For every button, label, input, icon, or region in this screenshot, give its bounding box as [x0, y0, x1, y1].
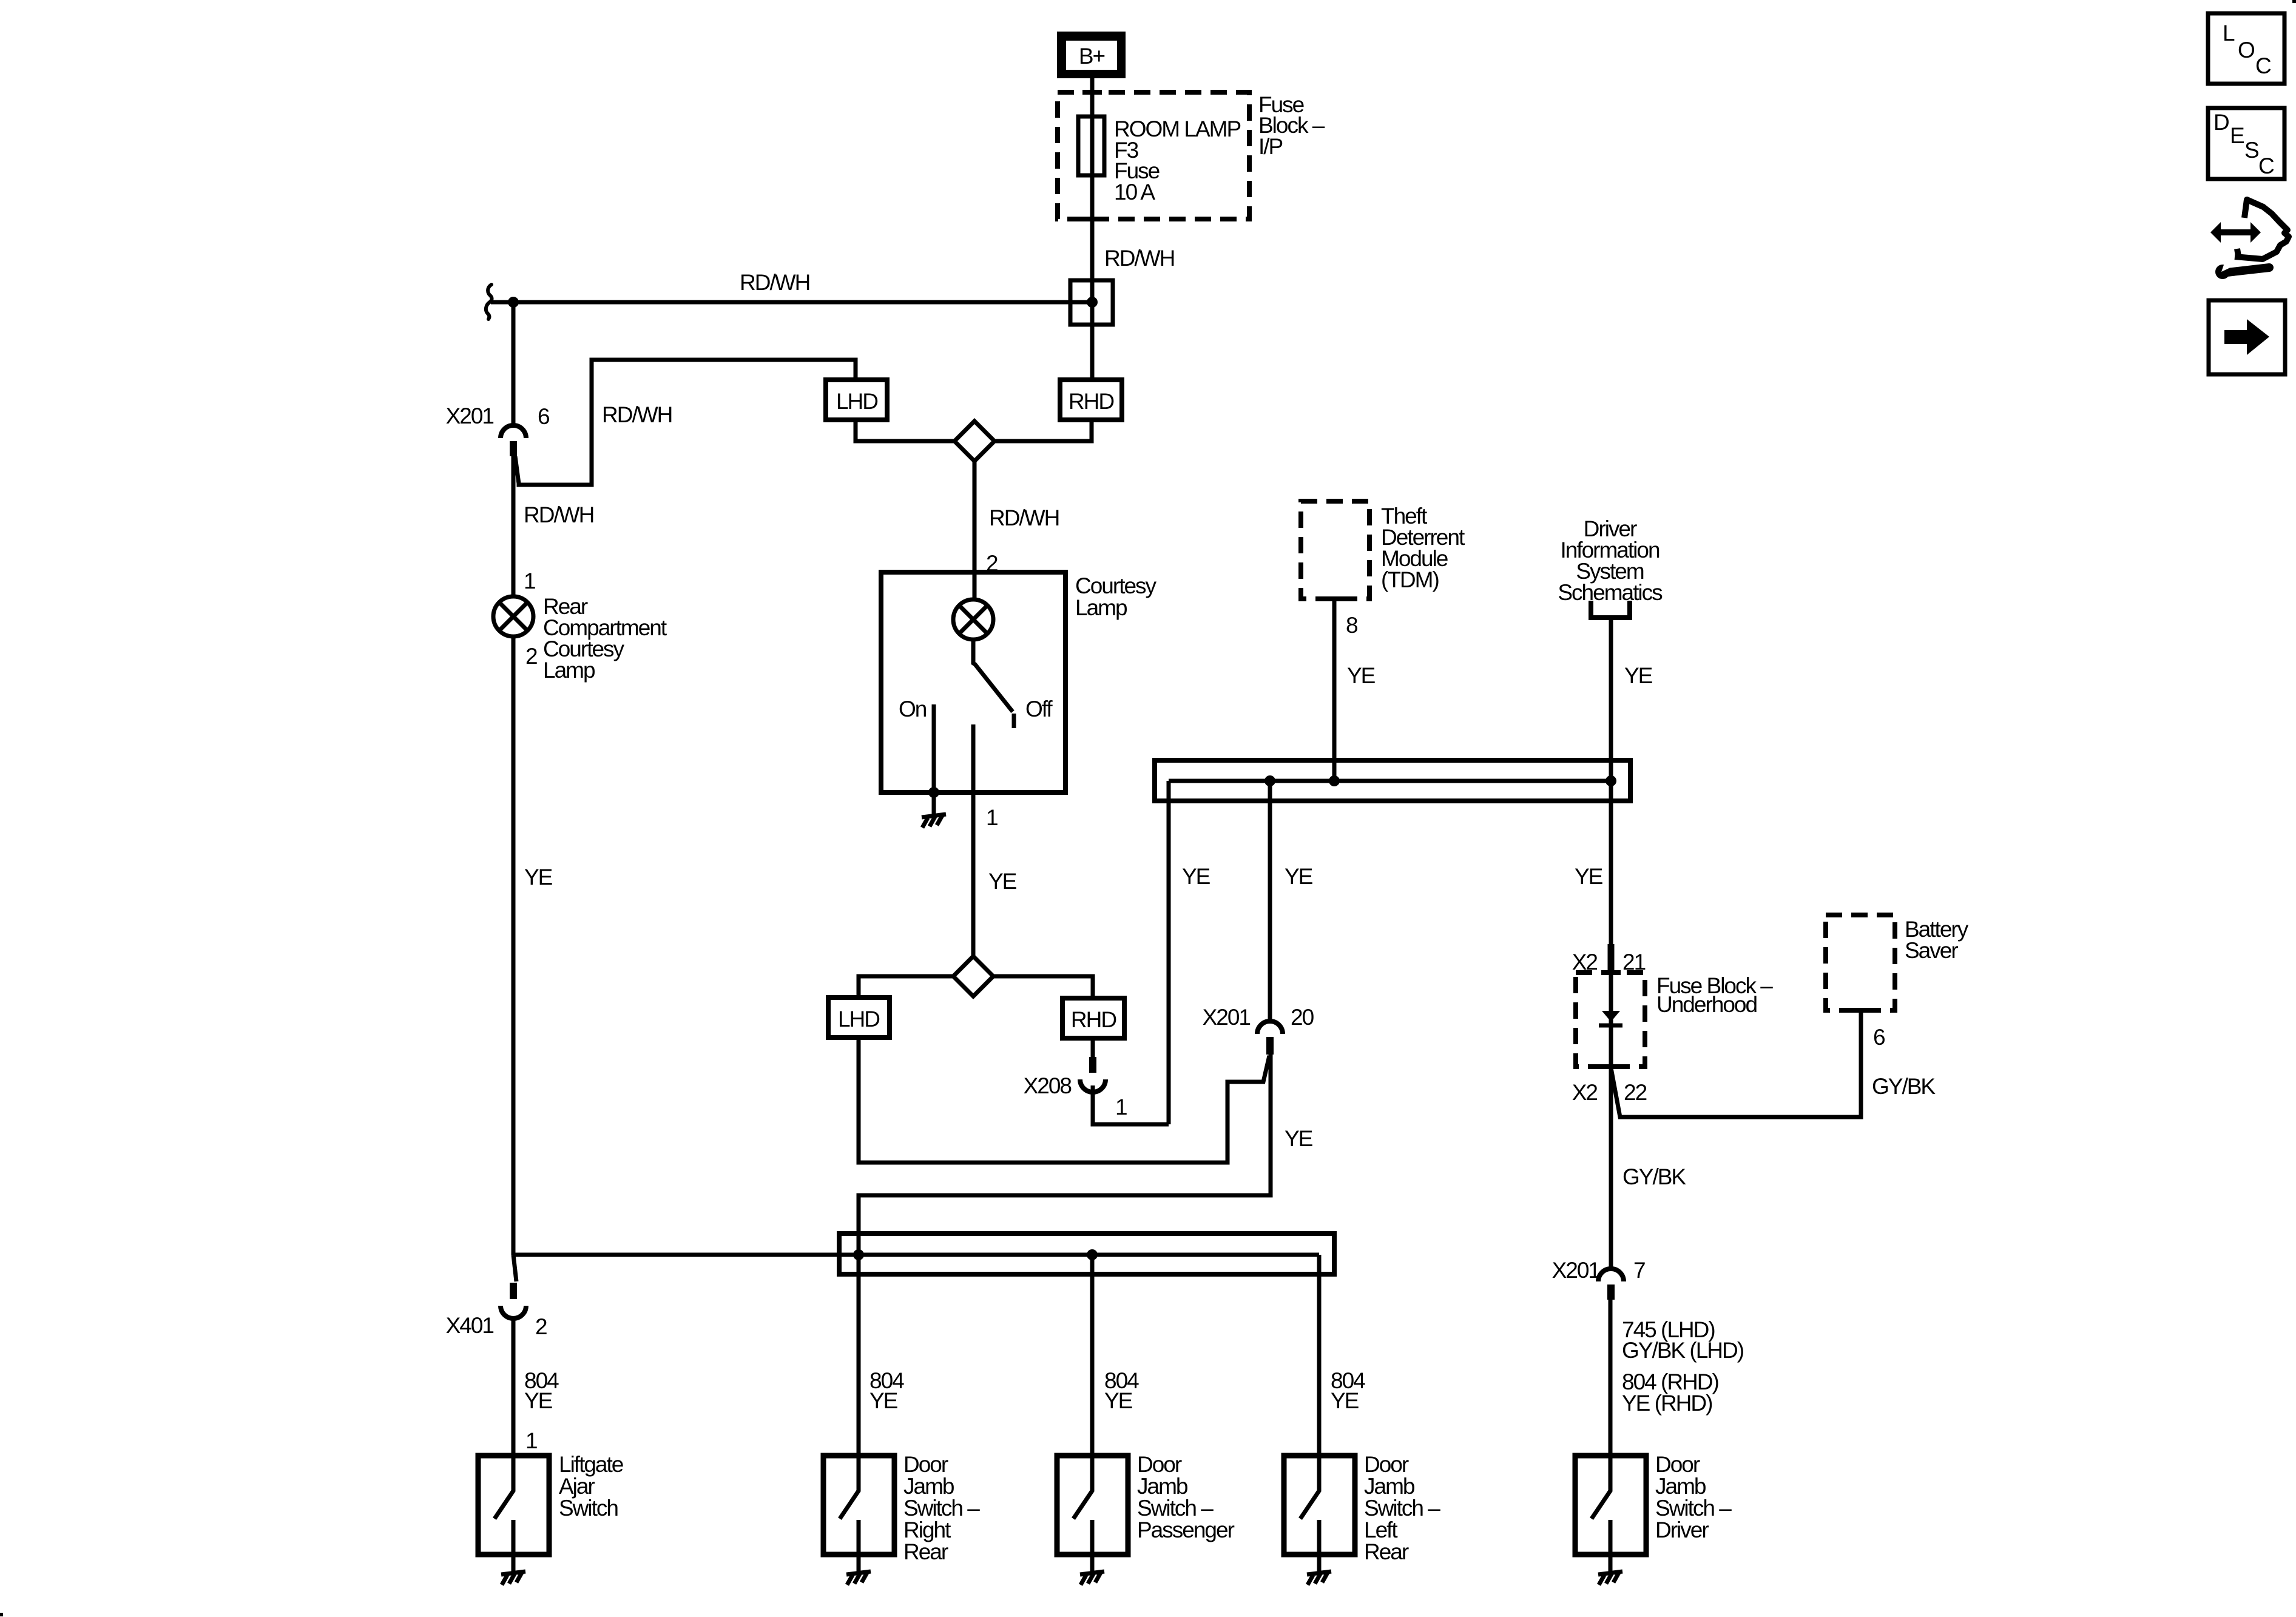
- svg-text:Jamb: Jamb: [1655, 1474, 1706, 1499]
- svg-text:YE: YE: [524, 1388, 553, 1413]
- node junction dot: [508, 297, 519, 308]
- service/adjust hand icon: [2210, 200, 2289, 279]
- svg-text:Door: Door: [1364, 1452, 1409, 1477]
- node dot to X201-20: [1264, 775, 1275, 786]
- node dot right rear: [853, 1249, 864, 1260]
- svg-text:6: 6: [538, 404, 549, 429]
- LHD box lower: [828, 998, 890, 1038]
- svg-text:E: E: [2230, 123, 2244, 148]
- svg-text:Switch –: Switch –: [903, 1496, 980, 1521]
- svg-text:I/P: I/P: [1258, 134, 1283, 159]
- svg-text:Door: Door: [1655, 1452, 1700, 1477]
- svg-text:Lamp: Lamp: [1075, 595, 1127, 620]
- svg-text:O: O: [2238, 38, 2255, 62]
- wire diamond down to courtesy lamp: [973, 461, 977, 572]
- svg-text:X201: X201: [1203, 1005, 1251, 1030]
- dash tick at TDM bottom crossing: [1325, 596, 1344, 601]
- svg-text:C: C: [2258, 154, 2274, 178]
- node dot right vertical: [1606, 775, 1616, 786]
- svg-text:Switch –: Switch –: [1137, 1496, 1214, 1521]
- svg-text:Ajar: Ajar: [559, 1474, 595, 1499]
- svg-text:RD/WH: RD/WH: [989, 505, 1059, 530]
- svg-text:Switch –: Switch –: [1364, 1496, 1440, 1521]
- node dot passenger: [1087, 1249, 1098, 1260]
- svg-text:22: 22: [1624, 1080, 1647, 1105]
- svg-text:8: 8: [1346, 613, 1357, 638]
- svg-text:YE: YE: [1285, 864, 1313, 889]
- svg-text:Jamb: Jamb: [1364, 1474, 1415, 1499]
- svg-text:D: D: [2213, 110, 2229, 135]
- svg-text:Left: Left: [1364, 1517, 1398, 1542]
- door jamb switch right rear: [823, 1456, 894, 1571]
- RHD box upper: [1060, 380, 1122, 420]
- svg-text:GY/BK: GY/BK: [1622, 1164, 1686, 1189]
- svg-text:YE: YE: [1182, 864, 1210, 889]
- bottom-left page artifact dot: [0, 1613, 3, 1616]
- svg-text:2: 2: [535, 1314, 547, 1339]
- main wire down to X201-7: [1609, 1067, 1613, 1269]
- svg-text:2: 2: [525, 644, 537, 669]
- left drop to X208: [1167, 781, 1171, 1124]
- wire bus2 to passenger switch: [1090, 1255, 1095, 1456]
- svg-text:Driver: Driver: [1655, 1517, 1709, 1542]
- svg-text:Rear: Rear: [1364, 1539, 1409, 1564]
- wire bus2 to right rear switch: [857, 1255, 861, 1456]
- svg-text:B+: B+: [1079, 44, 1105, 69]
- dash tick at box top crossing: [1601, 970, 1621, 975]
- svg-text:Switch: Switch: [559, 1496, 618, 1521]
- wire down to driver switch: [1609, 1300, 1613, 1456]
- svg-text:X201: X201: [1552, 1258, 1600, 1283]
- wire LHD lower loop to X201-20: [859, 1038, 1269, 1163]
- svg-text:1: 1: [1115, 1095, 1127, 1119]
- dash tick at box bottom crossing: [1601, 1064, 1621, 1069]
- ground left rear: [1307, 1571, 1331, 1585]
- lamp courtesy: [953, 599, 993, 640]
- wire X401 to liftgate switch: [512, 1317, 516, 1456]
- svg-text:X201: X201: [446, 403, 494, 428]
- wire diamond to LHD lower: [859, 976, 953, 998]
- DESC box: [2208, 108, 2284, 179]
- svg-text:X2: X2: [1572, 1080, 1598, 1105]
- svg-text:RD/WH: RD/WH: [1104, 246, 1174, 271]
- wire RD/WH horizontal: [491, 300, 1092, 305]
- svg-text:Jamb: Jamb: [1137, 1474, 1188, 1499]
- dash tick at fuse box top crossing: [1082, 90, 1102, 95]
- wire B+ to fuse and down to splice: [1090, 78, 1095, 380]
- wire continuation squiggle: [486, 285, 492, 319]
- fuse block I/P dashed outline: [1058, 92, 1249, 219]
- svg-text:Rear: Rear: [903, 1539, 948, 1564]
- svg-text:YE (RHD): YE (RHD): [1622, 1391, 1712, 1416]
- courtesy lamp box: [881, 572, 1065, 792]
- bus bar rect: [1155, 760, 1630, 801]
- svg-text:YE: YE: [1624, 663, 1653, 688]
- svg-text:YE: YE: [988, 869, 1017, 894]
- svg-text:LHD: LHD: [838, 1007, 879, 1031]
- svg-text:YE: YE: [524, 865, 553, 890]
- svg-text:RHD: RHD: [1071, 1007, 1116, 1032]
- off-page connector symbol: [1589, 601, 1632, 618]
- LOC box: [2208, 13, 2284, 84]
- node dot TDM: [1329, 775, 1340, 786]
- main wire down to rear lamp: [512, 456, 516, 597]
- svg-text:1: 1: [524, 569, 535, 593]
- door jamb switch passenger: [1057, 1456, 1128, 1571]
- svg-text:Right: Right: [903, 1517, 951, 1542]
- battery feed B+: [1057, 32, 1126, 78]
- top-right page artifact dot: [2292, 0, 2296, 3]
- next-page arrow box: [2209, 300, 2285, 374]
- svg-text:Jamb: Jamb: [903, 1474, 954, 1499]
- wire junction to bus2 inner: [513, 1253, 1319, 1257]
- svg-text:On: On: [899, 697, 927, 721]
- liftgate ajar switch: [478, 1456, 549, 1571]
- ground under courtesy lamp box: [922, 814, 946, 828]
- off/center contact wire down, pin 1: [971, 724, 976, 956]
- connector X401 pin 2: [446, 1255, 547, 1339]
- svg-text:20: 20: [1291, 1005, 1314, 1030]
- svg-text:Passenger: Passenger: [1137, 1517, 1235, 1542]
- svg-text:(TDM): (TDM): [1381, 567, 1439, 592]
- switch blade and pivot: [973, 640, 1013, 712]
- on contact to ground: [932, 704, 936, 814]
- ground liftgate: [501, 1571, 525, 1585]
- svg-text:Liftgate: Liftgate: [559, 1452, 623, 1477]
- branch wire to LHD via RD/WH: [515, 360, 856, 485]
- connector X208 pin 1: [1024, 1038, 1127, 1119]
- svg-text:YE: YE: [1331, 1388, 1359, 1413]
- dash tick at battery saver bottom crossing: [1851, 1008, 1871, 1013]
- svg-text:S: S: [2244, 138, 2258, 163]
- svg-text:Schematics: Schematics: [1558, 580, 1663, 605]
- ground passenger: [1080, 1571, 1104, 1585]
- ground right rear: [846, 1571, 871, 1585]
- bus internal wire: [1169, 779, 1611, 783]
- lamp E1 rear compartment courtesy lamp: [493, 596, 533, 636]
- fuse F3 ROOM LAMP 10A: [1078, 116, 1104, 175]
- svg-text:Underhood: Underhood: [1656, 992, 1757, 1017]
- wire LHD to diamond: [856, 420, 954, 441]
- svg-text:Door: Door: [903, 1452, 948, 1477]
- svg-text:GY/BK (LHD): GY/BK (LHD): [1622, 1338, 1744, 1363]
- svg-text:Saver: Saver: [1905, 938, 1958, 963]
- svg-text:Door: Door: [1137, 1452, 1182, 1477]
- door jamb switch left rear: [1284, 1456, 1355, 1571]
- wire down through bus1: [1609, 618, 1613, 1068]
- diode element: [1602, 1011, 1620, 1022]
- diamond junction upper: [954, 421, 994, 461]
- svg-text:GY/BK: GY/BK: [1872, 1074, 1936, 1099]
- svg-text:YE: YE: [1347, 663, 1376, 688]
- svg-text:YE: YE: [1104, 1388, 1133, 1413]
- ground driver: [1598, 1571, 1622, 1585]
- svg-text:RD/WH: RD/WH: [740, 270, 809, 295]
- wire diamond to RHD lower: [993, 976, 1093, 998]
- svg-text:1: 1: [525, 1428, 537, 1453]
- wire lamp down to lower junction: [512, 636, 516, 1255]
- svg-text:1: 1: [986, 805, 998, 830]
- diamond junction lower: [953, 956, 993, 996]
- dash tick at fuse box bottom crossing: [1082, 217, 1102, 221]
- junction dot in splice: [1087, 297, 1098, 308]
- RHD box lower: [1062, 998, 1124, 1038]
- wire X208 to bus1 left drop: [1093, 1085, 1169, 1124]
- svg-text:Courtesy: Courtesy: [1075, 573, 1157, 598]
- svg-text:Off: Off: [1025, 697, 1053, 721]
- wire into lamp: [973, 572, 977, 599]
- svg-text:YE: YE: [1575, 864, 1603, 889]
- wire down to X201-6: [512, 302, 516, 424]
- wire bus2 corner to left rear switch: [1317, 1255, 1322, 1456]
- svg-text:YE: YE: [869, 1388, 898, 1413]
- svg-text:X208: X208: [1024, 1073, 1072, 1098]
- svg-text:6: 6: [1873, 1025, 1885, 1050]
- wire battery saver pin 6: [1611, 1010, 1861, 1117]
- svg-text:C: C: [2255, 53, 2271, 78]
- svg-text:7: 7: [1633, 1258, 1645, 1283]
- off contact tick: [1012, 714, 1016, 728]
- svg-text:RHD: RHD: [1069, 389, 1113, 414]
- LHD box upper: [826, 380, 887, 420]
- svg-text:Lamp: Lamp: [543, 658, 595, 683]
- wire RHD to diamond: [994, 420, 1092, 441]
- svg-text:Switch –: Switch –: [1655, 1496, 1732, 1521]
- wire X201-20 down and left to bus2: [859, 1055, 1271, 1255]
- svg-text:10 A: 10 A: [1114, 180, 1155, 204]
- wire TDM pin 8 to bus1: [1332, 599, 1337, 781]
- svg-text:L: L: [2223, 21, 2235, 46]
- splice square S: [1070, 280, 1113, 325]
- svg-text:X401: X401: [446, 1313, 494, 1338]
- door jamb switch driver: [1575, 1456, 1646, 1571]
- svg-text:YE: YE: [1285, 1126, 1313, 1151]
- svg-text:LHD: LHD: [836, 389, 877, 414]
- svg-text:RD/WH: RD/WH: [602, 402, 672, 427]
- svg-text:RD/WH: RD/WH: [524, 502, 593, 527]
